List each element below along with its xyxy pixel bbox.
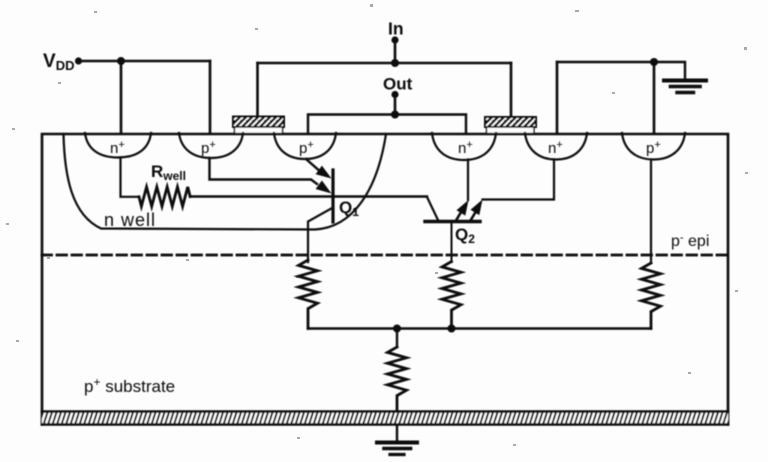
svg-text:Q1: Q1	[339, 198, 359, 219]
wire ground to p+ substrate tie	[653, 62, 656, 133]
node VDD terminal dot	[75, 57, 82, 64]
junction VDD dot	[117, 57, 125, 65]
wire VDD bus	[79, 60, 211, 62]
svg-text:p+: p+	[201, 139, 216, 157]
wire ground to n+ source	[556, 62, 559, 133]
wire p+3 to Q1 emitter arrow	[306, 159, 318, 170]
resistor Rsub3 (right)	[642, 263, 661, 329]
svg-text:Q2: Q2	[455, 225, 475, 246]
junction ground dot	[650, 58, 658, 66]
wire p+2 to Q1 emitter arrow	[210, 158, 318, 184]
node In terminal dot	[391, 36, 398, 43]
diffusion n+ #1 (well tie)	[85, 133, 151, 158]
resistor Rsub4 (to back contact)	[388, 347, 407, 411]
wire Q2 collector from base line	[427, 197, 438, 220]
arrow p+2 emitter into Q1	[316, 181, 332, 194]
svg-text:Rwell: Rwell	[151, 162, 186, 183]
wire bus to Rsub4	[396, 329, 398, 348]
svg-text:n+: n+	[458, 139, 473, 157]
svg-text:n+: n+	[548, 139, 563, 157]
substrate box outline	[42, 134, 728, 425]
resistor Rsub1 (under Q1)	[299, 260, 318, 329]
substrate back contact (hatched bar)	[42, 411, 728, 425]
wire In to gate2	[510, 63, 513, 117]
wire Q1 base line	[190, 195, 427, 197]
node Out terminal dot	[391, 91, 398, 98]
arrow p+3 emitter into Q1	[316, 166, 332, 179]
svg-text:VDD: VDD	[43, 51, 74, 73]
wire In to gate1	[256, 63, 259, 117]
transistor Q1 base bar	[331, 170, 334, 222]
wire Out bus	[308, 115, 466, 134]
svg-text:p+: p+	[646, 139, 661, 157]
svg-text:Out: Out	[383, 75, 413, 94]
svg-text:n+: n+	[110, 139, 125, 157]
wire Q2 base down	[451, 222, 453, 262]
wire VDD to p+ source	[209, 61, 212, 133]
wire n+4 to Q2 emitter A	[467, 160, 469, 201]
wire Q1 collector	[308, 208, 333, 263]
gate G2 poly (hatched)	[485, 117, 536, 134]
svg-text:p- epi: p- epi	[671, 232, 709, 250]
junction Out dot	[391, 111, 399, 119]
junction bus dot left	[393, 325, 401, 333]
wire ground bus	[557, 62, 685, 79]
wire p+6 down	[650, 160, 652, 264]
wire back contact to ground	[396, 425, 398, 441]
wire substrate bus	[308, 327, 651, 329]
ground symbol bottom	[377, 443, 417, 455]
svg-text:n well: n well	[104, 210, 156, 230]
svg-text:In: In	[388, 19, 404, 39]
ground symbol top-right	[664, 81, 706, 93]
arrow Q2 emitter A	[456, 200, 469, 221]
svg-text:p+ substrate: p+ substrate	[84, 375, 175, 396]
wire Out drop	[394, 95, 397, 115]
junction bus dot right	[448, 325, 456, 333]
diffusion p+ #6 (substrate tie)	[622, 133, 685, 160]
junction In dot	[391, 59, 399, 67]
n well boundary	[64, 134, 387, 230]
arrow Q2 emitter B	[471, 200, 483, 221]
diffusion n+ #4 (NMOS drain)	[432, 133, 496, 160]
resistor Rwell	[139, 187, 190, 206]
resistor Rsub2 (under Q2)	[442, 262, 461, 329]
wire In drop	[394, 40, 397, 63]
diffusion p+ #3 (PMOS drain)	[274, 133, 336, 159]
wire In bus	[258, 62, 512, 64]
diffusion n+ #5 (NMOS source)	[525, 133, 587, 160]
wire VDD to n+ well tie	[120, 61, 123, 133]
transistor Q2 base bar	[425, 220, 480, 223]
diffusion p+ #2 (PMOS source)	[179, 133, 243, 158]
wire n+1 to Rwell	[121, 158, 140, 197]
wire n+5 to Q2 emitter B	[483, 160, 555, 200]
dashed epi boundary	[42, 254, 728, 257]
svg-text:p+: p+	[299, 139, 314, 157]
gate G1 poly (hatched)	[233, 117, 284, 134]
